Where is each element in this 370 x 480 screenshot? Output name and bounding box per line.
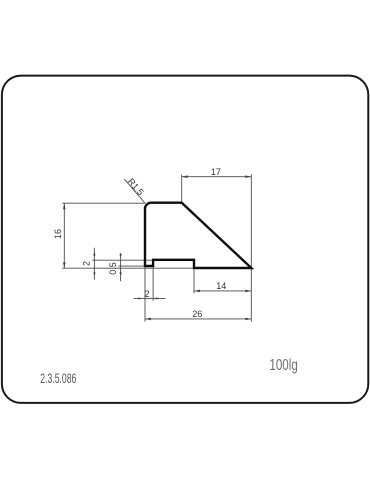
dimension 16/2/0.5 shared bottom extension line	[62, 267, 193, 269]
dimension 16 bottom arrow	[63, 262, 66, 268]
dimension 26 right arrow	[245, 318, 251, 321]
dimension 2 (horizontal) right dot	[155, 298, 159, 300]
svg-text:16: 16	[53, 229, 63, 239]
card border	[2, 76, 368, 403]
dimension 0.5 upper dot	[120, 253, 122, 256]
leader line R1.5	[124, 179, 145, 203]
svg-text:26: 26	[192, 309, 202, 319]
dimension 14 left extension line	[193, 270, 195, 294]
dimension 2 (vertical) lower dot	[94, 272, 96, 275]
svg-text:14: 14	[216, 281, 226, 291]
dimension 14 right arrow	[245, 290, 251, 293]
dimension 17 right arrow	[245, 175, 251, 178]
dimension 2 (horizontal) right extension line	[152, 268, 154, 301]
svg-text:0.5: 0.5	[108, 262, 118, 275]
dimension 17 left extension line	[181, 174, 183, 202]
dimension 26 line	[145, 318, 251, 320]
dimension 14 line	[194, 290, 251, 292]
svg-text:2: 2	[82, 261, 92, 266]
dimension 0.5 top extension line	[118, 265, 144, 267]
dimension 0.5 lower dot	[120, 272, 122, 275]
dimension 16 top arrow	[63, 203, 66, 209]
dimension 26 left arrow	[145, 318, 151, 321]
dimension 2 (horizontal) line	[134, 297, 166, 299]
svg-text:100lg: 100lg	[269, 357, 297, 374]
dimension 2 (vertical) upper dot	[94, 253, 96, 256]
dimension 2 (vertical) line	[93, 248, 95, 280]
dimension 17 line	[182, 176, 252, 178]
dimension 0.5 line	[120, 253, 122, 281]
dimension 17 left arrow	[182, 175, 188, 178]
dimension 2 (horizontal) left dot	[137, 298, 141, 300]
svg-text:17: 17	[211, 167, 221, 177]
dimension 14 left arrow	[194, 290, 200, 293]
shared right extension line (17/14/26)	[250, 174, 252, 321]
dimension 16 top extension line	[62, 202, 144, 204]
dimension 26 left extension line	[144, 267, 146, 321]
svg-text:2.3.5.086: 2.3.5.086	[40, 370, 76, 386]
dimension 16 line	[63, 203, 65, 268]
profile outline	[145, 203, 251, 268]
dimension 2 (vertical) top extension line	[92, 259, 152, 261]
